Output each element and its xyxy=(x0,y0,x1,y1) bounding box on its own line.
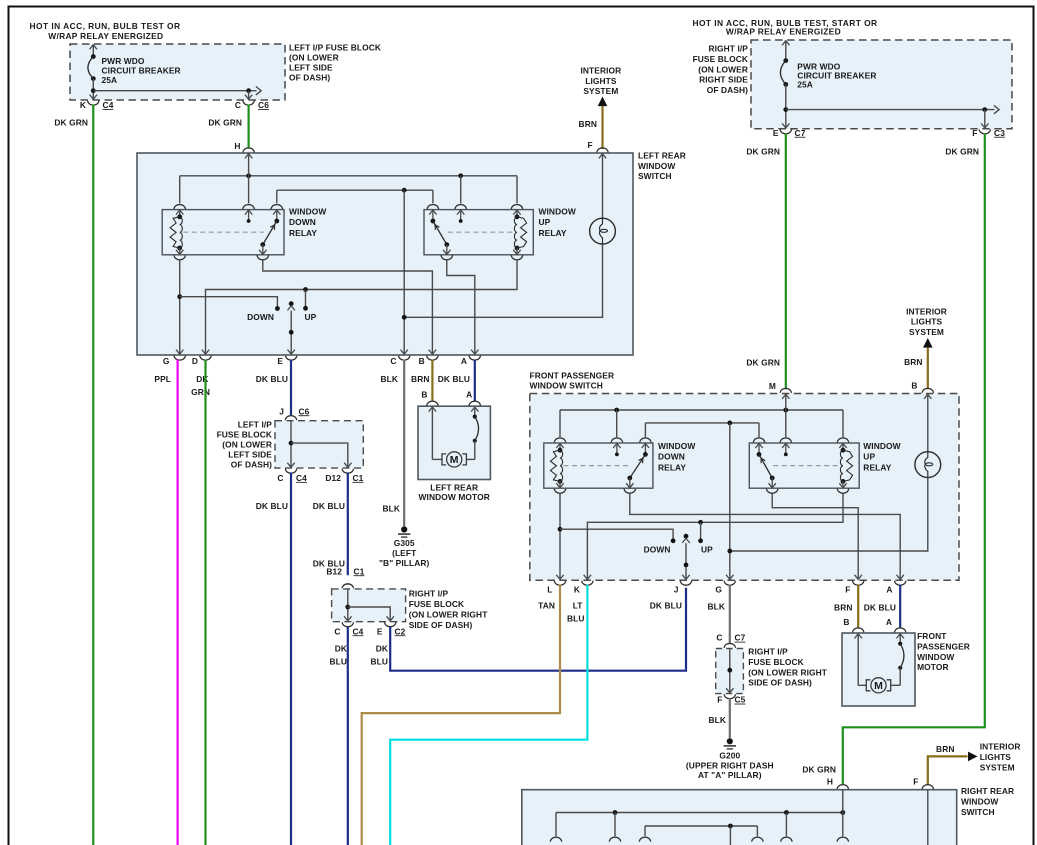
small right I/P fuse block (dashed box) xyxy=(332,589,406,622)
pin F of FPWS xyxy=(855,575,862,580)
contact DOWN (LRWS) xyxy=(275,306,280,311)
svg-text:LT: LT xyxy=(573,601,584,611)
ground G305 xyxy=(401,526,407,532)
wire fuse block internal bus (left) xyxy=(91,88,96,93)
ground G200 xyxy=(727,738,733,744)
svg-text:B: B xyxy=(419,356,425,366)
wire UP contact feed (LRWS) xyxy=(305,290,307,309)
svg-text:F: F xyxy=(913,776,918,786)
svg-text:(ON LOWER RIGHT: (ON LOWER RIGHT xyxy=(409,610,489,620)
svg-text:SYSTEM: SYSTEM xyxy=(909,327,944,337)
svg-text:RIGHT I/P: RIGHT I/P xyxy=(708,44,748,54)
svg-text:B: B xyxy=(911,380,917,390)
svg-text:H: H xyxy=(827,776,833,786)
left I/P fuse block (dashed box) xyxy=(70,44,285,100)
svg-text:BLU: BLU xyxy=(370,657,388,667)
svg-text:BLK: BLK xyxy=(707,601,725,611)
svg-text:RIGHT I/P: RIGHT I/P xyxy=(748,647,788,657)
wire LRWS G / down relay coil xyxy=(179,260,181,355)
pin L of FPWS xyxy=(556,575,563,580)
svg-text:K: K xyxy=(80,100,86,110)
wire DK BLU from E to J/C6 xyxy=(290,360,292,417)
wire LRWS down contact feed xyxy=(180,297,278,309)
wire FPWS G feed (to bus) xyxy=(729,423,731,580)
svg-text:OF DASH): OF DASH) xyxy=(289,73,330,83)
svg-text:C: C xyxy=(277,473,283,483)
svg-text:UP: UP xyxy=(701,544,713,554)
circuit breaker PWR WDO 25A (left) xyxy=(92,45,94,57)
pin C connector C6 xyxy=(245,95,252,100)
svg-text:LEFT I/P: LEFT I/P xyxy=(238,420,273,430)
wire PPL from G to bottom xyxy=(177,360,179,845)
wire BLK from F/C5 to ground G200 xyxy=(729,698,731,738)
wire BRN from FPWS B up to interior lights system xyxy=(927,348,929,390)
svg-text:SIDE OF DASH): SIDE OF DASH) xyxy=(409,620,473,630)
pin K connector C4 xyxy=(90,95,97,100)
wire FPWS L / down relay coil xyxy=(559,493,561,579)
svg-text:F: F xyxy=(587,140,592,150)
svg-text:DK BLU: DK BLU xyxy=(256,501,288,511)
svg-text:WINDOW: WINDOW xyxy=(638,161,675,171)
svg-text:B: B xyxy=(843,617,849,627)
svg-text:DK: DK xyxy=(335,644,347,654)
fuse block jumper wiring (right small) xyxy=(347,589,349,621)
svg-text:UP: UP xyxy=(539,217,551,227)
svg-text:DK GRN: DK GRN xyxy=(746,147,780,157)
narrow right I/P fuse block (dashed box) xyxy=(716,649,744,694)
svg-text:E: E xyxy=(277,356,283,366)
svg-text:SYSTEM: SYSTEM xyxy=(980,762,1015,772)
svg-text:DOWN: DOWN xyxy=(658,452,685,462)
FP motor internal wiring xyxy=(857,633,859,685)
svg-text:C: C xyxy=(716,633,722,643)
svg-text:WINDOW MOTOR: WINDOW MOTOR xyxy=(419,492,490,502)
svg-text:BLK: BLK xyxy=(382,503,400,513)
svg-text:M: M xyxy=(450,454,459,466)
pin B of front passenger window motor xyxy=(852,628,864,633)
fuse block jumper wiring xyxy=(290,421,292,468)
svg-text:BLU: BLU xyxy=(329,657,347,667)
svg-text:C: C xyxy=(334,626,340,636)
wire DK GRN from F/C3 down right side then left to H of right rear window switch xyxy=(843,133,985,785)
svg-text:W/RAP RELAY ENERGIZED: W/RAP RELAY ENERGIZED xyxy=(726,27,841,37)
svg-text:LEFT I/P FUSE BLOCK: LEFT I/P FUSE BLOCK xyxy=(289,42,381,52)
wire DK BLU from E/C2 right and up to FPWS J xyxy=(390,588,686,671)
svg-text:D: D xyxy=(192,356,198,366)
wire lamp to G node (FPWS) xyxy=(730,478,928,552)
svg-text:C7: C7 xyxy=(735,633,746,643)
svg-text:RELAY: RELAY xyxy=(289,228,317,238)
wire LRWS supply bus xyxy=(180,175,517,177)
svg-text:BRN: BRN xyxy=(936,744,954,754)
svg-text:INTERIOR: INTERIOR xyxy=(906,306,947,316)
svg-text:LEFT SIDE: LEFT SIDE xyxy=(289,63,333,73)
svg-text:BRN: BRN xyxy=(904,357,922,367)
wire BLK from C to ground G305 xyxy=(403,360,405,527)
svg-text:SWITCH: SWITCH xyxy=(638,171,672,181)
svg-text:DOWN: DOWN xyxy=(644,544,671,554)
wire RRWS switched bus xyxy=(645,825,757,827)
wire DK BLU from D12/C1 down to B12/C1 xyxy=(347,473,349,576)
svg-text:DK BLU: DK BLU xyxy=(256,374,288,384)
wire DK GRN from C/C6 down to H of left rear window switch xyxy=(248,105,250,149)
svg-text:(UPPER RIGHT DASH: (UPPER RIGHT DASH xyxy=(686,760,774,770)
wire TAN from L down and left to bottom xyxy=(362,585,560,845)
pin A of left rear window motor xyxy=(469,401,481,406)
svg-text:AT "A" PILLAR): AT "A" PILLAR) xyxy=(698,770,762,780)
wire FPWS switched bus xyxy=(645,422,759,424)
svg-text:WINDOW: WINDOW xyxy=(961,797,998,807)
svg-text:A: A xyxy=(461,356,467,366)
svg-text:C1: C1 xyxy=(353,473,364,483)
right I/P fuse block (dashed box) xyxy=(751,40,1012,129)
svg-text:BLK: BLK xyxy=(380,374,398,384)
svg-text:UP: UP xyxy=(305,312,317,322)
svg-text:G200: G200 xyxy=(719,751,740,761)
svg-text:DK BLU: DK BLU xyxy=(864,602,896,612)
svg-text:DK: DK xyxy=(376,644,388,654)
svg-text:FUSE BLOCK: FUSE BLOCK xyxy=(409,599,464,609)
svg-text:WINDOW: WINDOW xyxy=(539,207,576,217)
small left I/P fuse block (dashed box) xyxy=(275,421,363,468)
svg-text:DOWN: DOWN xyxy=(289,217,316,227)
wire LRWS switched bus xyxy=(277,189,433,191)
dome lamp (LRWS) xyxy=(602,153,604,218)
wire DK BLU from C/C4 to bottom of page xyxy=(290,473,292,845)
svg-text:LEFT REAR: LEFT REAR xyxy=(430,482,478,492)
svg-text:C3: C3 xyxy=(994,128,1005,138)
svg-text:(ON LOWER: (ON LOWER xyxy=(222,440,272,450)
svg-text:FRONT: FRONT xyxy=(917,631,947,641)
svg-text:DK BLU: DK BLU xyxy=(650,601,682,611)
circuit breaker PWR WDO 25A (right) xyxy=(785,41,787,61)
svg-text:C: C xyxy=(235,100,241,110)
pin G of FPWS xyxy=(726,575,733,580)
svg-text:F: F xyxy=(845,585,850,595)
pin E of LRWS xyxy=(288,350,295,355)
wire lamp to C node (LRWS) xyxy=(404,244,602,317)
svg-text:L: L xyxy=(547,585,552,595)
svg-text:LIGHTS: LIGHTS xyxy=(585,76,617,86)
wire LRWS down relay switch to B xyxy=(263,260,433,355)
svg-text:H: H xyxy=(234,141,240,151)
pin A of front passenger window motor xyxy=(894,628,906,633)
svg-text:C2: C2 xyxy=(395,626,406,636)
svg-text:F: F xyxy=(972,128,977,138)
wire FPWS supply bus xyxy=(560,409,843,411)
svg-text:FUSE BLOCK: FUSE BLOCK xyxy=(693,54,748,64)
svg-text:C1: C1 xyxy=(354,566,365,576)
svg-text:DK BLU: DK BLU xyxy=(438,374,470,384)
wire FPWS down relay switch to A xyxy=(630,493,900,579)
svg-text:C7: C7 xyxy=(795,128,806,138)
wire BRN from RRWS F to interior lights system xyxy=(928,756,968,785)
svg-text:"B" PILLAR): "B" PILLAR) xyxy=(379,558,430,568)
svg-text:FRONT PASSENGER: FRONT PASSENGER xyxy=(530,370,615,380)
svg-text:D12: D12 xyxy=(325,473,341,483)
svg-text:DK BLU: DK BLU xyxy=(313,501,345,511)
wire RRWS C feed xyxy=(729,826,731,845)
wire DK GRN from E/C7 down to M of front passenger window switch xyxy=(785,133,787,389)
window up relay (LRWS) xyxy=(424,210,533,255)
svg-text:HOT IN ACC, RUN, BULB TEST OR: HOT IN ACC, RUN, BULB TEST OR xyxy=(30,21,181,31)
svg-text:DK GRN: DK GRN xyxy=(54,118,88,128)
svg-text:(ON LOWER RIGHT: (ON LOWER RIGHT xyxy=(748,667,828,677)
wire DK BLU from A down to front passenger window motor A xyxy=(899,585,901,628)
right rear window switch (box) xyxy=(522,790,957,845)
wire BRN from F down to front passenger window motor B xyxy=(857,585,859,628)
svg-text:RIGHT I/P: RIGHT I/P xyxy=(409,589,449,599)
svg-text:FUSE BLOCK: FUSE BLOCK xyxy=(217,430,272,440)
wire FPWS up relay switch to F xyxy=(772,493,858,579)
svg-text:BRN: BRN xyxy=(834,602,852,612)
svg-text:B12: B12 xyxy=(326,566,342,576)
svg-text:B: B xyxy=(421,389,427,399)
pin F connector C5 xyxy=(726,688,733,693)
svg-text:BLK: BLK xyxy=(708,715,726,725)
svg-text:G: G xyxy=(163,356,170,366)
wire fuse block internal bus (right) xyxy=(783,107,788,112)
svg-text:FUSE BLOCK: FUSE BLOCK xyxy=(748,657,803,667)
svg-text:WINDOW: WINDOW xyxy=(289,207,326,217)
pin A of FPWS xyxy=(897,575,904,580)
svg-text:BLU: BLU xyxy=(567,614,585,624)
motor M symbol (FP) xyxy=(866,680,870,691)
dome lamp (FPWS) xyxy=(927,394,929,452)
svg-text:C6: C6 xyxy=(299,406,310,416)
svg-text:J: J xyxy=(674,585,679,595)
svg-text:RIGHT REAR: RIGHT REAR xyxy=(961,786,1014,796)
svg-text:G305: G305 xyxy=(394,538,415,548)
window down relay (FPWS) xyxy=(544,443,653,488)
svg-text:A: A xyxy=(886,617,892,627)
svg-text:WINDOW: WINDOW xyxy=(917,652,954,662)
svg-text:(ON LOWER: (ON LOWER xyxy=(698,64,748,74)
svg-text:INTERIOR: INTERIOR xyxy=(580,65,621,75)
svg-text:OF DASH): OF DASH) xyxy=(231,459,272,469)
pin C of LRWS xyxy=(401,350,408,355)
wire LRWS up relay coil to D xyxy=(206,260,518,355)
svg-text:UP: UP xyxy=(863,452,875,462)
pin K of FPWS xyxy=(584,575,591,580)
svg-text:E: E xyxy=(377,626,383,636)
wire DK BLU from C/C4 (right small block) to bottom of page xyxy=(347,626,349,845)
wire DK GRN from K/C4 down left side to bottom of page xyxy=(92,105,94,845)
front passenger window switch (dashed box) xyxy=(530,394,959,581)
wire BRN from B to left rear window motor xyxy=(431,360,433,401)
svg-text:SWITCH: SWITCH xyxy=(961,807,995,817)
svg-text:C: C xyxy=(390,356,396,366)
motor M symbol xyxy=(442,454,446,465)
svg-text:DK GRN: DK GRN xyxy=(802,765,836,775)
svg-text:A: A xyxy=(466,389,472,399)
svg-text:C4: C4 xyxy=(296,473,307,483)
svg-text:25A: 25A xyxy=(102,75,118,85)
svg-text:C4: C4 xyxy=(103,100,114,110)
contact UP (FPWS) xyxy=(698,538,703,543)
svg-text:SIDE OF DASH): SIDE OF DASH) xyxy=(748,678,812,688)
switch arm J (FPWS) xyxy=(684,534,689,539)
svg-text:TAN: TAN xyxy=(538,601,555,611)
contact DOWN (FPWS) xyxy=(671,538,676,543)
fuse block through wire xyxy=(729,649,731,694)
svg-text:PPL: PPL xyxy=(154,374,171,384)
wire BRN from LRWS F up to interior lights system xyxy=(601,106,603,149)
svg-text:C5: C5 xyxy=(735,695,746,705)
svg-text:A: A xyxy=(886,585,892,595)
svg-text:F: F xyxy=(717,695,722,705)
svg-text:PASSENGER: PASSENGER xyxy=(917,641,970,651)
svg-text:M: M xyxy=(874,680,883,692)
pin C connector C4 (small right fuse block) xyxy=(344,616,351,621)
svg-text:BRN: BRN xyxy=(579,119,597,129)
wire BLK from G down to C/C7 xyxy=(729,585,731,645)
svg-text:K: K xyxy=(574,585,580,595)
svg-text:(ON LOWER: (ON LOWER xyxy=(289,52,339,62)
svg-text:C6: C6 xyxy=(258,100,269,110)
pin J of FPWS xyxy=(682,575,689,580)
wire DK BLU from A to left rear window motor xyxy=(474,360,476,401)
svg-text:DOWN: DOWN xyxy=(247,312,274,322)
pin C connector C4 (small left fuse block) xyxy=(287,463,294,468)
pin E connector C2 xyxy=(387,616,394,621)
svg-text:WINDOW SWITCH: WINDOW SWITCH xyxy=(530,380,603,390)
wire LT BLU from K down and left to bottom xyxy=(390,585,587,845)
svg-text:BRN: BRN xyxy=(411,374,429,384)
svg-text:INTERIOR: INTERIOR xyxy=(980,742,1021,752)
left rear window motor (box) xyxy=(418,406,490,479)
wire FPWS down contact feed xyxy=(560,529,673,541)
svg-text:WINDOW: WINDOW xyxy=(863,441,900,451)
svg-text:G: G xyxy=(715,585,722,595)
svg-text:GRN: GRN xyxy=(191,387,210,397)
pin D of LRWS xyxy=(202,350,209,355)
wire DK GRN from D to bottom xyxy=(204,360,206,845)
svg-text:OF DASH): OF DASH) xyxy=(707,85,748,95)
svg-text:LIGHTS: LIGHTS xyxy=(980,752,1012,762)
left rear window switch (box) xyxy=(137,153,633,355)
pin E connector C7 xyxy=(782,123,789,128)
wire FPWS up relay coil to K xyxy=(587,493,843,579)
wire LRWS up relay switch to A xyxy=(447,260,475,355)
arrow to interior lights system (top) xyxy=(598,97,608,107)
contact UP (LRWS) xyxy=(303,306,308,311)
svg-text:C4: C4 xyxy=(353,626,364,636)
svg-text:W/RAP RELAY ENERGIZED: W/RAP RELAY ENERGIZED xyxy=(48,31,163,41)
window up relay (FPWS) xyxy=(749,443,859,488)
svg-text:M: M xyxy=(769,381,776,391)
svg-text:RELAY: RELAY xyxy=(658,462,686,472)
pin A of LRWS xyxy=(471,350,478,355)
svg-text:(LEFT: (LEFT xyxy=(392,548,417,558)
svg-text:J: J xyxy=(279,406,284,416)
svg-text:DK GRN: DK GRN xyxy=(945,147,979,157)
arrow to interior lights system (middle right) xyxy=(923,338,933,348)
pin G of LRWS xyxy=(429,350,436,355)
svg-text:LEFT SIDE: LEFT SIDE xyxy=(228,449,272,459)
svg-text:DK: DK xyxy=(196,374,208,384)
svg-text:RELAY: RELAY xyxy=(863,462,891,472)
switch arm E (LRWS) xyxy=(289,301,294,306)
motor internal wiring xyxy=(431,407,433,460)
pin D12 connector C1 xyxy=(344,463,351,468)
svg-text:RIGHT SIDE: RIGHT SIDE xyxy=(699,75,748,85)
svg-text:DK GRN: DK GRN xyxy=(746,358,780,368)
wire RRWS supply bus xyxy=(556,812,843,814)
front passenger window motor (box) xyxy=(842,633,915,706)
svg-text:SYSTEM: SYSTEM xyxy=(583,86,618,96)
pin F connector C3 xyxy=(981,123,988,128)
window down relay (LRWS) xyxy=(162,210,284,255)
wire RRWS F feed xyxy=(927,790,929,845)
svg-text:WINDOW: WINDOW xyxy=(658,441,695,451)
arrow to interior lights system (bottom right) xyxy=(968,752,978,762)
relay pin cups (RRWS, cut off at page bottom) xyxy=(550,837,562,842)
wire LRWS C feed (to bus) xyxy=(403,190,405,354)
svg-text:MOTOR: MOTOR xyxy=(917,662,949,672)
svg-text:E: E xyxy=(773,128,779,138)
wire UP contact feed (FPWS) xyxy=(700,522,702,541)
svg-text:25A: 25A xyxy=(797,79,813,89)
svg-text:LEFT REAR: LEFT REAR xyxy=(638,150,686,160)
pin B of left rear window motor xyxy=(427,401,439,406)
svg-text:DK GRN: DK GRN xyxy=(208,118,242,128)
svg-text:LIGHTS: LIGHTS xyxy=(911,317,943,327)
pin B of LRWS xyxy=(427,356,439,361)
svg-text:RELAY: RELAY xyxy=(539,228,567,238)
